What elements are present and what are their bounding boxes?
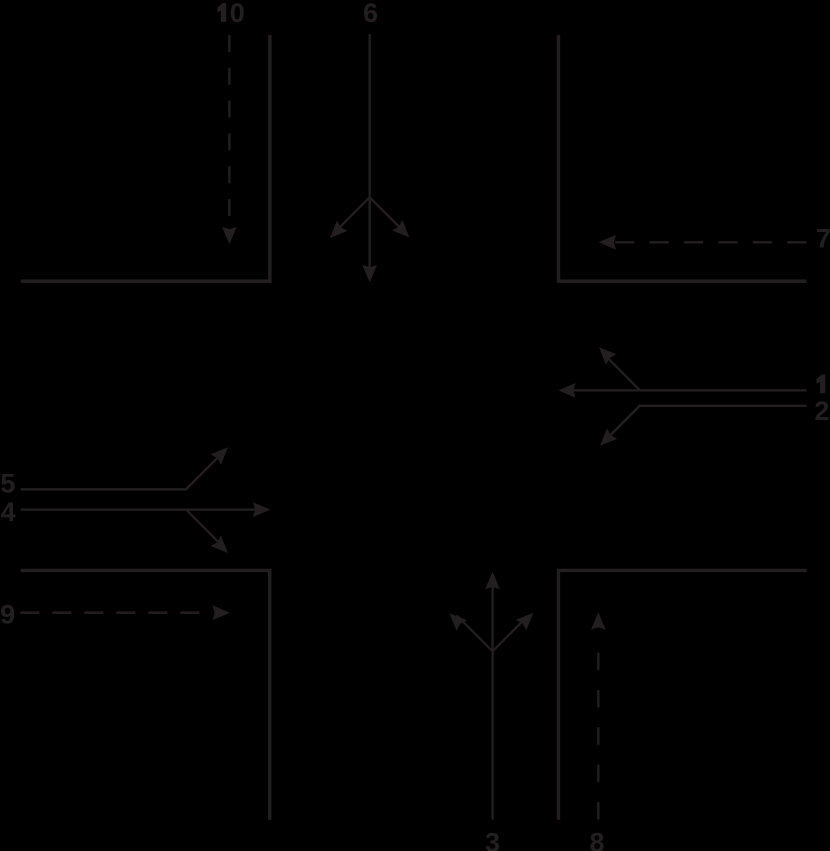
- svg-text:6: 6: [363, 0, 378, 28]
- svg-text:0: 0: [230, 0, 245, 28]
- svg-text:3: 3: [485, 827, 500, 851]
- svg-text:8: 8: [589, 827, 604, 851]
- svg-text:4: 4: [1, 497, 16, 527]
- svg-text:5: 5: [0, 469, 15, 499]
- svg-text:7: 7: [816, 223, 830, 253]
- svg-text:9: 9: [0, 599, 15, 629]
- svg-text:2: 2: [814, 396, 829, 426]
